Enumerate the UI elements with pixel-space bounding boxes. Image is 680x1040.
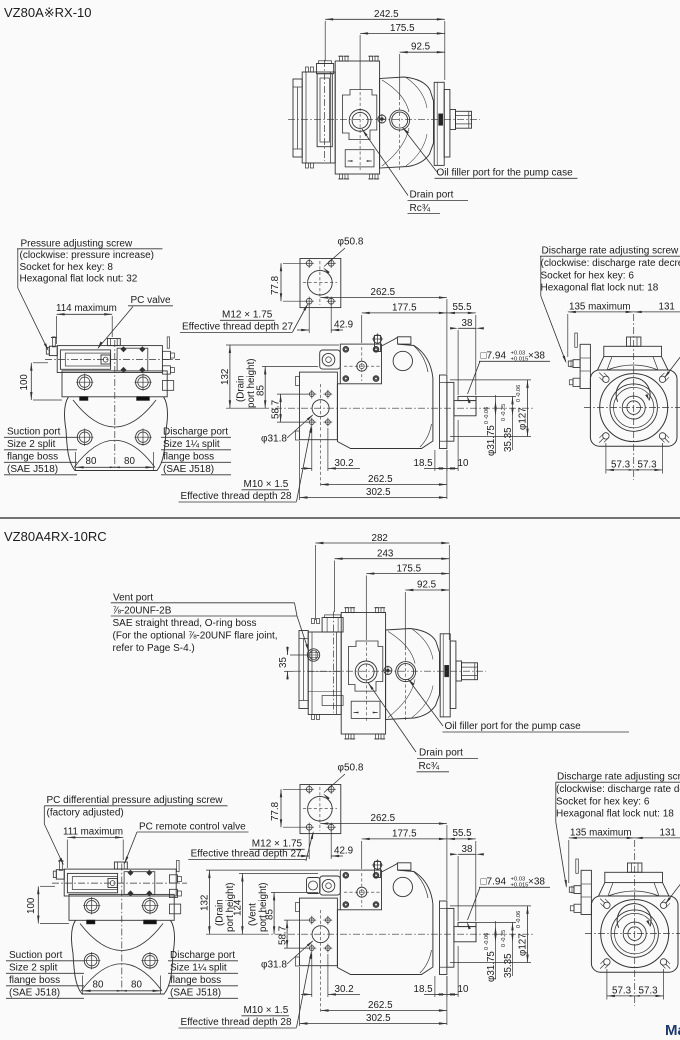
s2 dim 302.5 bottom xyxy=(300,967,447,1026)
s1 front view: compensator block xyxy=(580,344,590,388)
s1 top view: rear flange xyxy=(293,79,302,157)
svg-text:Vent port: Vent port xyxy=(113,592,153,603)
s2 side view: rear port block xyxy=(296,898,338,966)
s1 front view: rotation arrow xyxy=(616,378,650,402)
svg-text:Pressure adjusting screw: Pressure adjusting screw xyxy=(21,239,133,250)
svg-text:M10 × 1.5: M10 × 1.5 xyxy=(244,479,289,490)
s2 dim 177.5 xyxy=(362,829,447,870)
svg-text:Drain port: Drain port xyxy=(419,748,463,759)
s1 dim 30.2 xyxy=(301,428,360,471)
s1 dim 85 xyxy=(255,366,318,408)
svg-text:M10 × 1.5: M10 × 1.5 xyxy=(244,1005,289,1016)
s1 dim 55.5 xyxy=(447,302,476,395)
svg-text:35.35: 35.35 xyxy=(503,953,514,978)
s1 top view: drain port boss xyxy=(349,110,371,132)
svg-text:38: 38 xyxy=(462,318,473,329)
svg-text:Socket for hex key: 8: Socket for hex key: 8 xyxy=(20,262,114,273)
svg-text:177.5: 177.5 xyxy=(392,303,417,314)
s2 label vent port block xyxy=(111,592,309,654)
s2 label M12 thread xyxy=(188,831,313,861)
s2 top view: mounting flange xyxy=(440,634,450,717)
svg-text:175.5: 175.5 xyxy=(397,564,422,575)
svg-text:0 -0.25: 0 -0.25 xyxy=(501,930,507,947)
s2 left view: lower housing xyxy=(71,920,174,994)
svg-text:(clockwise: pressure increase): (clockwise: pressure increase) xyxy=(20,250,155,261)
s2 front view: top cap xyxy=(605,872,663,882)
svg-text:Suction port: Suction port xyxy=(7,427,61,438)
s2 dim 35.35 xyxy=(476,922,516,978)
svg-text:φ31.75: φ31.75 xyxy=(486,425,497,456)
s2 side view: drain/vent boss xyxy=(307,876,341,895)
s1 top view: valve block studs xyxy=(306,67,314,168)
s2 dim 111 maximum xyxy=(63,827,123,869)
s1 dim 58.7 xyxy=(271,394,309,422)
s2 dim 80-80 xyxy=(83,976,161,994)
s2 top view: key slot mark xyxy=(445,665,449,677)
s1 front view: top cap xyxy=(604,346,662,356)
s2 label keyway 7.94x38 xyxy=(467,877,550,930)
svg-text:□7.94: □7.94 xyxy=(481,351,507,362)
s1 dim 114 maximum xyxy=(56,303,117,344)
svg-text:131: 131 xyxy=(659,302,675,313)
s2 dim 243 xyxy=(335,549,450,613)
svg-text:135 maximum: 135 maximum xyxy=(570,828,632,839)
s1 front view: pin xyxy=(575,333,578,347)
svg-text:0 -0.06: 0 -0.06 xyxy=(516,385,522,402)
svg-text:Hexagonal flat lock nut: 18: Hexagonal flat lock nut: 18 xyxy=(541,283,659,294)
s2 side view: control valve block xyxy=(340,870,381,910)
s2 front view: rotation arrow xyxy=(617,904,651,928)
s1 label oil filler port xyxy=(403,128,578,179)
s2 left view: valve centerline xyxy=(52,882,187,884)
svg-text:Oil filler port for the pump c: Oil filler port for the pump case xyxy=(445,721,582,732)
svg-text:85: 85 xyxy=(255,385,266,396)
s1 side view: drain/vent boss xyxy=(320,350,341,369)
svg-text:131: 131 xyxy=(660,828,676,839)
s2 front view: top knob xyxy=(628,863,642,872)
s2 dim 18.5 xyxy=(414,976,447,997)
s2 dim 135 maximum xyxy=(569,828,635,884)
s2 dim 58.7 xyxy=(277,920,308,948)
svg-text:132: 132 xyxy=(220,369,231,385)
svg-text:Hexagonal flat lock nut: 18: Hexagonal flat lock nut: 18 xyxy=(556,809,674,820)
svg-text:302.5: 302.5 xyxy=(366,487,391,498)
svg-text:(factory adjusted): (factory adjusted) xyxy=(47,807,124,818)
s2 dim 282 xyxy=(315,533,449,640)
svg-text:φ31.75: φ31.75 xyxy=(486,951,497,982)
svg-text:M12 × 1.75: M12 × 1.75 xyxy=(222,310,273,321)
s2 front view: adj screw + locknut xyxy=(569,886,581,894)
s1 dim 175.5 xyxy=(360,23,445,170)
s2 front view: bore circles xyxy=(601,900,669,968)
s2 side view: rear port circle (phi31.8) xyxy=(312,926,329,943)
svg-text:flange boss: flange boss xyxy=(9,975,60,986)
svg-text:Socket for hex key: 6: Socket for hex key: 6 xyxy=(556,796,650,807)
title VZ80A*RX-10 xyxy=(4,5,91,20)
s2 left view: upper body xyxy=(69,894,174,920)
s2 detail: top port flange (phi50.8) xyxy=(300,785,341,834)
svg-text:30.2: 30.2 xyxy=(335,984,354,995)
s2 front view: neck xyxy=(599,883,670,896)
s1 left view: valve body xyxy=(57,346,162,373)
svg-text:77.8: 77.8 xyxy=(270,275,281,295)
svg-text:Discharge port: Discharge port xyxy=(163,427,228,438)
svg-text:57.3: 57.3 xyxy=(612,986,632,997)
s1 front view: corner mounting slots xyxy=(599,373,669,443)
s2 dim 77.8 xyxy=(270,789,306,827)
s1 left view: lower housing xyxy=(64,397,167,471)
s1 side view: control valve block xyxy=(340,344,381,384)
s2 top view: main housing xyxy=(341,613,385,735)
svg-text:Oil filler port for the pump c: Oil filler port for the pump case xyxy=(437,168,574,179)
svg-text:18.5: 18.5 xyxy=(414,458,434,469)
svg-text:Effective thread depth 28: Effective thread depth 28 xyxy=(181,491,292,502)
svg-text:30.2: 30.2 xyxy=(335,458,354,469)
s1 side view: pilot xyxy=(447,382,454,441)
svg-text:282: 282 xyxy=(372,533,388,544)
svg-text:Socket for hex key: 6: Socket for hex key: 6 xyxy=(541,270,635,281)
svg-text:57.3: 57.3 xyxy=(611,460,631,471)
svg-text:80: 80 xyxy=(124,456,135,467)
svg-text:132: 132 xyxy=(200,895,211,911)
s2 side view: pilot xyxy=(447,908,454,967)
s2 left view: lower flange bolts xyxy=(83,952,159,969)
s2 top view: pump case xyxy=(386,629,440,720)
s2 side view: port centerline xyxy=(320,910,322,958)
svg-text:0 -0.06: 0 -0.06 xyxy=(484,933,490,950)
s1 dim 131 xyxy=(634,302,680,314)
svg-text:10: 10 xyxy=(458,458,469,469)
s2 top view: valve block studs xyxy=(312,619,320,720)
svg-text:(SAE J518): (SAE J518) xyxy=(9,988,60,999)
svg-text:57.3: 57.3 xyxy=(638,460,658,471)
s2 dim 124 vent port height xyxy=(233,874,319,935)
s1 left view: top knob xyxy=(107,339,120,346)
s1 label suction port block xyxy=(4,427,77,476)
svg-text:100: 100 xyxy=(19,374,30,391)
svg-text:Effective thread depth 27: Effective thread depth 27 xyxy=(182,322,293,333)
s2 dim 42.9 xyxy=(297,829,353,859)
svg-text:80: 80 xyxy=(93,979,104,990)
svg-text:×38: ×38 xyxy=(528,877,545,888)
svg-text:77.8: 77.8 xyxy=(270,801,281,821)
svg-text:55.5: 55.5 xyxy=(453,302,473,313)
svg-text:VZ80A※RX-10: VZ80A※RX-10 xyxy=(4,5,91,20)
s2 top view: pilot ring xyxy=(450,641,456,709)
svg-text:Suction port: Suction port xyxy=(9,950,63,961)
s1 dim 77.8 xyxy=(270,263,306,301)
svg-text:VZ80A4RX-10RC: VZ80A4RX-10RC xyxy=(4,529,107,544)
s2 front view: centerlines xyxy=(585,840,680,1006)
s1 top view: main housing xyxy=(335,61,379,174)
svg-text:(clockwise: discharge rate dec: (clockwise: discharge rate decrease) xyxy=(556,784,680,795)
s2 side view: vertical adj screw xyxy=(372,859,383,877)
svg-text:175.5: 175.5 xyxy=(390,23,415,34)
s1 label phi31.8 xyxy=(261,414,314,444)
s2 dim 55.5 xyxy=(447,828,476,921)
s1 dim 80-80 xyxy=(76,452,154,470)
s1 dim 242.5 xyxy=(325,9,445,80)
s1 top view: pilot ring xyxy=(444,90,450,158)
s2 side view: pump housing xyxy=(337,863,433,975)
s1 dim 100 xyxy=(19,363,62,400)
svg-text:0 -0.25: 0 -0.25 xyxy=(501,404,507,421)
svg-text:port height): port height) xyxy=(246,358,257,408)
s2 left view: lock pin xyxy=(58,860,64,870)
s1 front view: body square xyxy=(590,370,677,446)
svg-text:Effective thread depth 28: Effective thread depth 28 xyxy=(181,1017,292,1028)
s1 label discharge rate adjusting screw block xyxy=(540,246,680,364)
svg-text:18.5: 18.5 xyxy=(414,984,434,995)
svg-text:Discharge rate adjusting screw: Discharge rate adjusting screw xyxy=(542,246,680,257)
svg-text:(SAE J518): (SAE J518) xyxy=(170,988,221,999)
svg-text:(clockwise: discharge rate dec: (clockwise: discharge rate decrease) xyxy=(541,258,680,269)
s2 left view: port marks xyxy=(87,920,157,924)
s1 top view: valve block xyxy=(302,72,335,163)
s1 top view: nameplate xyxy=(345,150,374,167)
title VZ80A4RX-10RC xyxy=(4,529,107,544)
s1 label PC valve xyxy=(98,295,174,349)
svg-text:φ50.8: φ50.8 xyxy=(338,237,364,248)
s1 dim 302.5 bottom xyxy=(300,441,447,500)
svg-text:80: 80 xyxy=(86,456,97,467)
s2 top view: rear flange xyxy=(299,631,308,709)
svg-text:Rc¾: Rc¾ xyxy=(419,761,440,772)
svg-text:80: 80 xyxy=(131,979,142,990)
s1 side view: port centerline xyxy=(320,384,322,432)
svg-text:38: 38 xyxy=(462,844,473,855)
s2 top view: mounting studs xyxy=(344,608,385,739)
s1 dim 57.3-57.3 xyxy=(606,443,663,474)
s1 top view: housing inner contour xyxy=(342,90,376,140)
s1 dim 135 maximum xyxy=(568,302,634,358)
svg-text:flange boss: flange boss xyxy=(7,452,58,463)
svg-text:Size 1¼ split: Size 1¼ split xyxy=(170,962,227,974)
svg-text:(For the optional ⅞-20UNF flar: (For the optional ⅞-20UNF flare joint, xyxy=(113,630,278,641)
s1 dim phi127 xyxy=(450,380,531,437)
s1 dim 38 xyxy=(450,318,484,395)
s1 left view: lower flange bolts xyxy=(76,429,152,446)
svg-text:58.7: 58.7 xyxy=(271,400,282,419)
svg-text:SAE straight thread, O-ring bo: SAE straight thread, O-ring boss xyxy=(113,618,257,629)
svg-text:PC valve: PC valve xyxy=(131,295,171,306)
s1 label discharge port block xyxy=(161,427,231,476)
svg-text:111 maximum: 111 maximum xyxy=(63,827,123,838)
s1 label drain port xyxy=(362,129,468,214)
s2 label M10 thread xyxy=(179,951,312,1028)
s2 left view: upper flange bolts xyxy=(83,897,159,914)
s2 dim 38 xyxy=(450,844,484,921)
s2 dim 262.5 bottom xyxy=(321,960,447,1025)
s2 dim 30.2 xyxy=(301,954,360,997)
s1 front view: neck xyxy=(598,357,669,370)
s1 dim 262.5 bottom xyxy=(321,434,447,499)
svg-text:35: 35 xyxy=(278,657,289,668)
svg-text:55.5: 55.5 xyxy=(453,828,473,839)
s1 dim 92.5 xyxy=(400,42,445,171)
svg-text:port height): port height) xyxy=(258,882,269,932)
svg-text:42.9: 42.9 xyxy=(334,320,353,331)
s1 left view: upper body xyxy=(62,371,167,397)
s1 detail: top port flange (phi50.8) xyxy=(300,259,341,308)
svg-text:92.5: 92.5 xyxy=(417,580,437,591)
s2 dim 262.5 top xyxy=(320,813,447,900)
svg-text:242.5: 242.5 xyxy=(374,9,399,20)
svg-text:Drain port: Drain port xyxy=(410,190,454,201)
s1 dim 35.35 xyxy=(476,396,516,452)
svg-text:Rc¾: Rc¾ xyxy=(410,203,431,214)
svg-text:0 -0.06: 0 -0.06 xyxy=(484,407,490,424)
svg-text:□7.94: □7.94 xyxy=(481,877,507,888)
svg-text:Discharge rate adjusting screw: Discharge rate adjusting screw xyxy=(557,772,680,783)
s2 left view: pilot plug xyxy=(108,879,117,888)
s1 top view: shaft centerline xyxy=(288,119,480,121)
s1 left view: pilot plug xyxy=(101,355,110,364)
s2 left view: top knob xyxy=(114,862,127,869)
s1 left view: adj screw head xyxy=(46,346,57,355)
svg-text:φ127: φ127 xyxy=(518,933,529,956)
s2 left view: valve body xyxy=(64,869,176,896)
s1 front view: corner leader xyxy=(664,356,680,378)
svg-text:42.9: 42.9 xyxy=(334,846,353,857)
s1 left view: port marks xyxy=(80,397,150,401)
s1 dim 262.5 top xyxy=(320,287,447,374)
s1 top view: mounting flange xyxy=(434,82,444,165)
s2 label phi50.8 xyxy=(323,763,364,800)
svg-text:×38: ×38 xyxy=(528,351,545,362)
svg-text:⅞-20UNF-2B: ⅞-20UNF-2B xyxy=(113,605,172,616)
s1 top view: mounting studs xyxy=(338,56,379,179)
svg-text:Size 2 split: Size 2 split xyxy=(7,439,56,450)
s2 top view: drain port boss xyxy=(355,661,377,683)
svg-text:92.5: 92.5 xyxy=(411,42,431,53)
svg-text:(Drain: (Drain xyxy=(215,899,226,926)
svg-text:Discharge port: Discharge port xyxy=(170,950,235,961)
s1 dim 10 xyxy=(447,420,469,471)
s2 dim phi31.75 xyxy=(484,921,497,982)
svg-text:135 maximum: 135 maximum xyxy=(569,302,631,313)
s2 label suction port block xyxy=(6,950,84,999)
svg-text:114 maximum: 114 maximum xyxy=(56,303,117,314)
s1 dim 132 drain port height xyxy=(220,345,339,408)
s1 front view: bore circles xyxy=(600,374,668,442)
s1 side view: vertical adj screw xyxy=(372,333,383,351)
s1 side view: shaft xyxy=(454,396,476,415)
s2 top view: housing inner contour xyxy=(348,641,382,691)
svg-text:Effective thread depth 27: Effective thread depth 27 xyxy=(191,849,302,860)
s2 left view: valve sleeve xyxy=(67,873,117,892)
s2 front view: lower stub xyxy=(570,904,581,912)
s1 top view: valve cylinder xyxy=(317,74,332,147)
svg-text:Ma: Ma xyxy=(665,1022,680,1039)
s2 front view: compensator block xyxy=(581,870,591,914)
s1 side view: pump housing xyxy=(337,337,433,449)
svg-text:262.5: 262.5 xyxy=(368,1000,393,1011)
s2 dim 10 xyxy=(447,946,469,997)
svg-text:124: 124 xyxy=(233,899,244,916)
svg-text:PC remote control valve: PC remote control valve xyxy=(139,821,246,832)
s1 side view: mounting flange xyxy=(440,375,447,449)
s2 left view: adj screw head xyxy=(53,870,64,879)
svg-text:Hexagonal flat lock nut: 32: Hexagonal flat lock nut: 32 xyxy=(20,274,138,285)
svg-text:(Vent: (Vent xyxy=(248,903,259,926)
s1 front view: adj screw + locknut xyxy=(568,360,580,368)
s2 dim 175.5 xyxy=(366,564,449,723)
svg-text:flange boss: flange boss xyxy=(170,975,221,986)
s1 side view: rear port block xyxy=(296,372,338,440)
s1 left view: spring chamber xyxy=(117,346,148,373)
s1 front view: lower stub xyxy=(569,378,580,386)
svg-text:58.7: 58.7 xyxy=(277,926,288,945)
s2 top view: shaft centerline xyxy=(294,670,486,672)
s2 label phi31.8 xyxy=(261,940,314,970)
s1 side view: rear port circle (phi31.8) xyxy=(312,400,329,417)
svg-text:φ50.8: φ50.8 xyxy=(338,763,364,774)
s2 top view: vent port fitting xyxy=(307,649,319,661)
s1 dim phi31.75 xyxy=(484,395,497,456)
s2 top view: vent valve cap xyxy=(322,615,343,632)
svg-text:PC differential pressure adjus: PC differential pressure adjusting screw xyxy=(47,795,224,806)
s2 top view: center plug xyxy=(383,666,393,676)
svg-text:262.5: 262.5 xyxy=(368,474,393,485)
svg-text:(Drain: (Drain xyxy=(236,375,247,402)
s2 dim 85 xyxy=(264,892,318,934)
s1 top view: valve centerline xyxy=(324,60,326,161)
s1 label M12 thread xyxy=(180,303,308,332)
s2 dim 57.3-57.3 xyxy=(607,969,664,1000)
s2 label discharge rate adjusting screw block xyxy=(556,772,680,889)
s1 label M10 thread xyxy=(179,425,312,502)
s2 top view: oil filler port boss xyxy=(396,662,416,682)
s1 top view: pump case xyxy=(380,77,434,168)
s1 dim 18.5 xyxy=(414,450,447,471)
svg-text:10: 10 xyxy=(458,984,469,995)
s2 top view: shaft collar xyxy=(456,661,462,681)
svg-text:0 -0.06: 0 -0.06 xyxy=(516,911,522,928)
s1 top view: center plug xyxy=(377,114,387,124)
svg-text:Size 1¼ split: Size 1¼ split xyxy=(163,438,220,450)
s2 label drain port xyxy=(368,683,478,772)
s2 dim 92.5 xyxy=(405,580,449,723)
svg-text:302.5: 302.5 xyxy=(366,1013,391,1024)
svg-text:35.35: 35.35 xyxy=(503,427,514,452)
s1 left view: upper flange bolts xyxy=(76,374,152,391)
svg-text:φ127: φ127 xyxy=(518,407,529,430)
s2 label PC remote control valve xyxy=(124,821,248,864)
s1 top view: pressure adj screw cap xyxy=(317,61,334,74)
page footer text Ma xyxy=(665,1022,680,1039)
svg-text:Size 2 split: Size 2 split xyxy=(9,963,58,974)
s1 label keyway 7.94x38 xyxy=(467,351,550,404)
s2 label oil filler port xyxy=(408,679,629,732)
s2 label discharge port block xyxy=(168,950,238,999)
svg-text:(SAE J518): (SAE J518) xyxy=(163,464,214,475)
s2 top view: vent valve block xyxy=(308,632,343,715)
s1 top view: oil filler port boss xyxy=(390,110,410,130)
s2 top view: nameplate xyxy=(351,701,380,718)
svg-text:262.5: 262.5 xyxy=(371,813,396,824)
s1 side view: port bolt holes xyxy=(307,390,332,427)
s2 top view: shaft with key xyxy=(462,663,478,680)
s2 dim phi127 xyxy=(450,906,531,963)
s2 dim 132 drain port height xyxy=(200,870,340,934)
s2 dim 131 xyxy=(635,828,680,840)
s1 front view: centerlines xyxy=(584,314,680,480)
s1 top view: shaft with key xyxy=(456,111,472,128)
svg-text:100: 100 xyxy=(26,897,37,914)
s1 top view: key slot mark xyxy=(439,114,443,126)
svg-text:57.3: 57.3 xyxy=(639,986,659,997)
